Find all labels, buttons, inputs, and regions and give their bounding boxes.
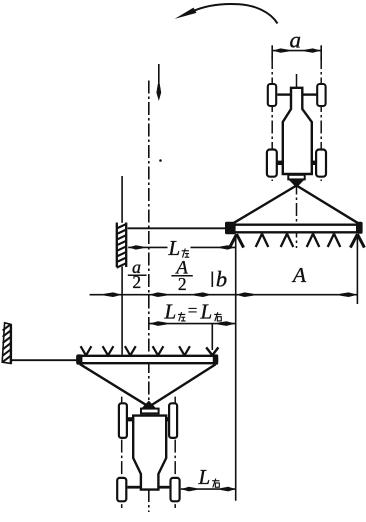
svg-text:=: =	[188, 301, 198, 320]
svg-text:L: L	[164, 299, 177, 323]
svg-text:L: L	[168, 236, 181, 260]
svg-text:L: L	[200, 299, 213, 323]
svg-text:L: L	[198, 465, 211, 489]
svg-text:b: b	[216, 267, 227, 292]
svg-text:A: A	[291, 263, 307, 287]
svg-text:2: 2	[178, 274, 187, 294]
svg-text:2: 2	[132, 272, 141, 292]
svg-text:a: a	[289, 28, 301, 53]
